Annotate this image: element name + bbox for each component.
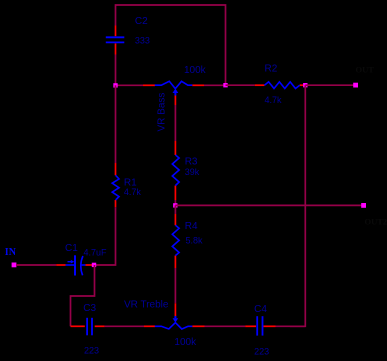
- wire C3 to treble pot: [105, 325, 144, 327]
- resistor R3 39k: [172, 141, 199, 200]
- svg-text:VR Treble: VR Treble: [124, 299, 169, 310]
- wire R1 down and left to node D: [94, 207, 116, 265]
- svg-text:OUT: OUT: [356, 64, 375, 74]
- wire node E to OUT2 port: [175, 204, 363, 206]
- node E junction: [173, 203, 177, 207]
- wire below C2 to node A: [115, 55, 117, 86]
- svg-text:39k: 39k: [185, 167, 200, 177]
- svg-text:VR Bass: VR Bass: [157, 93, 168, 132]
- node C junction: [303, 83, 307, 87]
- wire node B to R2: [226, 84, 255, 86]
- node A junction: [113, 83, 117, 87]
- svg-text:C4: C4: [254, 304, 267, 315]
- port OUT2: [361, 203, 366, 208]
- port OUT1: [353, 83, 358, 88]
- resistor R1 4.7k: [112, 163, 141, 207]
- capacitor C3 223: [71, 303, 105, 355]
- svg-text:5.8k: 5.8k: [186, 236, 204, 246]
- wire IN to C1: [16, 264, 56, 266]
- wire node E to R4: [174, 205, 176, 214]
- svg-text:R2: R2: [265, 63, 278, 74]
- wire node D jog down to C3: [71, 265, 95, 326]
- port IN: [12, 263, 17, 268]
- svg-text:100k: 100k: [174, 337, 197, 348]
- svg-text:100k: 100k: [184, 65, 207, 76]
- svg-text:333: 333: [135, 35, 150, 45]
- svg-text:C1: C1: [65, 243, 78, 254]
- svg-text:C2: C2: [135, 16, 148, 27]
- svg-text:223: 223: [84, 345, 99, 355]
- svg-text:4.7uF: 4.7uF: [84, 247, 108, 257]
- wire node A to bass pot: [116, 84, 144, 86]
- potentiometer VR Treble 100k: [124, 299, 205, 348]
- wire node C to OUT1 port: [305, 84, 355, 86]
- svg-text:OUT2: OUT2: [365, 217, 387, 227]
- wire R4 to treble wiper: [174, 268, 176, 303]
- wire C4 to right column corner: [276, 325, 306, 327]
- svg-text:4.7k: 4.7k: [124, 187, 142, 197]
- capacitor C4 223: [245, 304, 275, 357]
- svg-text:IN: IN: [5, 247, 17, 258]
- wire bass wiper down: [174, 105, 176, 141]
- wire treble pot to C4: [205, 325, 246, 327]
- resistor R2 4.7k: [255, 63, 305, 105]
- svg-text:R4: R4: [185, 221, 198, 232]
- wire left column node A to R1: [115, 85, 117, 163]
- node D junction: [92, 263, 96, 267]
- resistor R4 5.8k: [172, 214, 203, 268]
- wire R3 to node E: [174, 200, 176, 205]
- wire top loop C2 to node B: [116, 5, 226, 85]
- capacitor C1 4.7uF: [56, 243, 107, 276]
- svg-text:223: 223: [254, 347, 269, 357]
- svg-text:C3: C3: [83, 303, 96, 314]
- potentiometer VR Bass 100k: [143, 65, 207, 132]
- wire right column vertical: [290, 85, 305, 326]
- svg-text:4.7k: 4.7k: [265, 95, 283, 105]
- node B junction: [223, 83, 227, 87]
- svg-text:R3: R3: [185, 157, 198, 168]
- capacitor C2: [106, 16, 150, 54]
- wire bass pot to node B: [204, 84, 226, 86]
